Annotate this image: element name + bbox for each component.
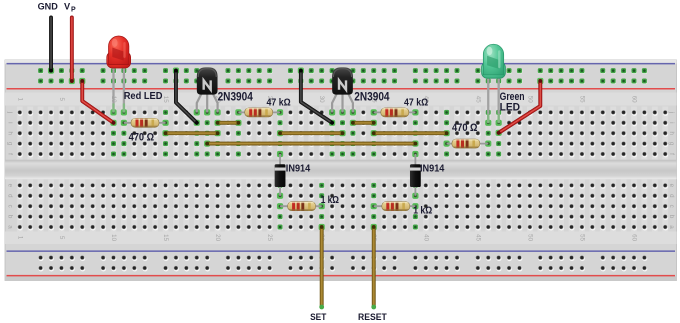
GND black wire into top rail row1 col4 <box>48 68 54 74</box>
svg-text:55: 55 <box>578 234 585 241</box>
svg-text:i: i <box>668 122 675 123</box>
svg-text:30: 30 <box>318 96 325 103</box>
svg-text:50: 50 <box>526 234 533 241</box>
svg-text:47 kΩ: 47 kΩ <box>267 98 291 109</box>
svg-text:40: 40 <box>422 234 429 241</box>
label IN914 left <box>286 164 311 175</box>
label Red LED <box>124 91 163 102</box>
svg-text:RESET: RESET <box>358 312 387 322</box>
wire jumper: 470R-left right lead col15 to Q1 collector col20 (row3) <box>162 130 168 136</box>
breadboard holes <box>18 68 669 271</box>
svg-text:470 Ω: 470 Ω <box>129 132 155 144</box>
svg-text:e: e <box>668 184 675 188</box>
svg-text:j: j <box>668 111 675 113</box>
center channel groove <box>5 160 677 179</box>
red LED, legs col10/col11 row1 <box>110 109 116 115</box>
svg-text:2N3904: 2N3904 <box>354 90 390 104</box>
label 1 kOhm left <box>321 195 340 206</box>
label Green LED <box>500 91 525 103</box>
svg-text:45: 45 <box>474 234 481 241</box>
VP red wire into top rail row2 col6 <box>69 78 75 84</box>
label 2N3904 left <box>218 90 254 104</box>
svg-text:47 kΩ: 47 kΩ <box>404 98 428 109</box>
wire jumper: Q1 base col19 to 47k-right col39 (row4, long) <box>204 141 210 147</box>
svg-text:g: g <box>668 142 675 146</box>
svg-text:h: h <box>7 131 14 135</box>
RESET input wire col35 bank B row5 <box>371 224 377 230</box>
column striping <box>17 107 668 233</box>
svg-text:470 Ω: 470 Ω <box>452 122 478 134</box>
resistor R4 470 ohm (right), bank A row4 col42-col46 <box>444 141 450 147</box>
svg-text:1: 1 <box>16 97 23 101</box>
svg-text:f: f <box>7 153 14 155</box>
resistor R2 47 kohm (left), bank A row1 col22-col26 <box>235 109 241 115</box>
svg-text:h: h <box>668 131 675 135</box>
top blue rail line <box>7 63 676 65</box>
svg-text:a: a <box>668 225 675 229</box>
label 470 Ohm right <box>452 122 478 134</box>
svg-text:e: e <box>7 184 14 188</box>
svg-text:j: j <box>7 111 14 113</box>
svg-text:55: 55 <box>578 96 585 103</box>
board row/column legends <box>7 96 675 242</box>
label 470 Ohm left <box>129 132 155 144</box>
label 47 kOhm left <box>267 98 291 109</box>
svg-text:P: P <box>71 7 76 14</box>
svg-text:1 kΩ: 1 kΩ <box>321 195 340 206</box>
svg-text:d: d <box>668 194 675 198</box>
svg-text:60: 60 <box>630 96 637 103</box>
svg-text:20: 20 <box>214 234 221 241</box>
wire jumper: 47k-left col26 to Q2 base col32 (row3) <box>277 130 283 136</box>
svg-text:GND: GND <box>38 2 59 12</box>
black wire: GND rail col16 to Q1 emitter col18 row2 <box>173 68 179 74</box>
diode D2 1N914 (right) col39, bank A row5 to bank B row2 <box>412 151 418 157</box>
wire jumper: col35 to 470R-right col42 (row3) <box>371 130 377 136</box>
svg-text:b: b <box>7 215 14 219</box>
svg-text:15: 15 <box>162 96 169 103</box>
svg-text:i: i <box>7 122 14 123</box>
svg-text:2N3904: 2N3904 <box>218 90 254 104</box>
svg-text:SET: SET <box>310 312 327 322</box>
svg-text:45: 45 <box>474 96 481 103</box>
wire jumper: Q2 collector col33 to col35 (row2) <box>350 120 356 126</box>
resistor R1 470 ohm (left), bank A row2 col11-col15 <box>121 120 127 126</box>
black wire: GND rail col28 to Q2 emitter col31 row2 <box>298 68 304 74</box>
diode D1 1N914 (left) col26, bank A row5 to bank B row2 <box>277 151 283 157</box>
svg-text:60: 60 <box>630 234 637 241</box>
red wire: V+ rail col7 to red LED anode col10 row2 <box>79 78 85 84</box>
transistor Q1 2N3904, cols 18-20 <box>194 109 200 115</box>
svg-text:LED: LED <box>500 101 520 113</box>
svg-text:g: g <box>7 142 14 146</box>
svg-text:5: 5 <box>58 97 65 101</box>
svg-text:Red LED: Red LED <box>124 91 163 102</box>
svg-text:5: 5 <box>58 236 65 240</box>
svg-text:c: c <box>7 205 14 208</box>
label GND <box>38 2 59 12</box>
svg-text:15: 15 <box>162 234 169 241</box>
green LED, legs col46/col47 row2 <box>485 120 491 126</box>
SET input wire col30 bank B row5 <box>319 224 325 230</box>
resistor R3 47 kohm (right), bank A row1 col35-col39 <box>371 109 377 115</box>
red wire: V+ rail col51 to green LED col47 row3 <box>537 78 543 84</box>
svg-text:IN914: IN914 <box>420 164 445 175</box>
svg-text:10: 10 <box>110 234 117 241</box>
svg-text:1: 1 <box>16 236 23 240</box>
bottom blue rail line <box>7 250 676 252</box>
svg-text:c: c <box>668 205 675 208</box>
label RESET <box>358 312 387 322</box>
label 2N3904 right <box>354 90 390 104</box>
label 47 kOhm right <box>404 98 428 109</box>
svg-text:d: d <box>7 194 14 198</box>
svg-text:1 kΩ: 1 kΩ <box>413 205 432 216</box>
resistor R6 1 kohm (right), bank B row3 col35-col39 <box>371 203 377 209</box>
label 1 kOhm right <box>413 205 432 216</box>
svg-text:IN914: IN914 <box>286 164 311 175</box>
label IN914 right <box>420 164 445 175</box>
svg-text:25: 25 <box>266 234 273 241</box>
top red rail line <box>7 88 676 90</box>
svg-text:V: V <box>64 2 71 12</box>
svg-text:50: 50 <box>526 96 533 103</box>
wire jumper: Q1 collector col20 to 47k-left col22 (row2) <box>214 120 220 126</box>
label SET <box>310 312 327 322</box>
transistor Q2 2N3904, cols 31-33 <box>329 109 335 115</box>
svg-text:f: f <box>668 153 675 155</box>
svg-text:a: a <box>7 225 14 229</box>
label VP <box>64 2 71 12</box>
breadboard body <box>5 60 677 281</box>
bottom red rail line <box>7 275 676 277</box>
resistor R5 1 kohm (left), bank B row3 col26-col30 <box>277 203 283 209</box>
svg-text:b: b <box>668 215 675 219</box>
